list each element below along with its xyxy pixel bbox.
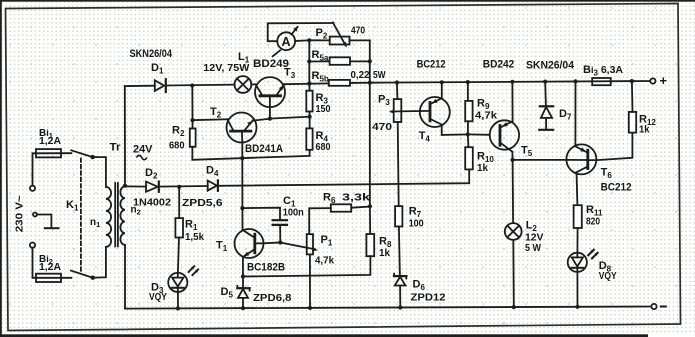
wire L1 to T3	[251, 83, 255, 85]
wire T6 base to R12	[589, 133, 633, 161]
capacitor C1 100n	[242, 208, 287, 243]
LED D8 VQY	[568, 249, 599, 272]
svg-text:470: 470	[372, 121, 392, 133]
LED D3 VQY	[168, 266, 199, 292]
resistor R2	[190, 129, 196, 147]
transformer winding n1	[106, 187, 111, 247]
svg-text:1,2A: 1,2A	[39, 136, 61, 147]
potentiometer P3 470	[389, 99, 429, 122]
terminal mains bottom	[30, 243, 35, 248]
wire P1 bottom to rail	[309, 254, 311, 308]
wire T1 emitter	[242, 257, 244, 277]
svg-text:BC212: BC212	[417, 59, 446, 71]
wire primary top lead	[93, 157, 106, 187]
svg-text:680: 680	[169, 139, 185, 151]
switch K1 link dashed	[80, 159, 82, 273]
fuse Bi1 1,2A	[36, 149, 61, 157]
node R3/R4 junction	[308, 115, 312, 119]
wire L2 to bottom rail	[512, 240, 515, 307]
wire top rail T3 to R5b	[284, 82, 329, 85]
resistor R5b shunt 0,22 5W	[329, 80, 370, 86]
node X top junction	[307, 38, 311, 42]
resistor R9 4,7k	[465, 101, 472, 121]
wire R1 branch	[178, 187, 180, 218]
wire R1 to D3	[178, 238, 179, 274]
ammeter A	[273, 26, 299, 56]
node bottom rail/D3	[176, 306, 180, 310]
wire n2 bottom lead	[124, 245, 126, 309]
svg-text:12V, 75W: 12V, 75W	[203, 62, 249, 74]
wire ammeter right to node X	[295, 39, 309, 42]
transistor T4	[420, 97, 450, 127]
svg-text:VQY: VQY	[149, 292, 167, 303]
resistor R5a	[309, 57, 370, 65]
wire R10 top lead	[467, 134, 470, 147]
fuse Bi2 1,2A	[36, 274, 61, 282]
wire D2 to D4	[160, 185, 208, 188]
wire T4 emitter to rail	[441, 82, 443, 98]
node R6/R8 junction	[368, 204, 372, 208]
svg-text:3,3k: 3,3k	[342, 192, 370, 204]
node C1 top junction	[240, 206, 244, 210]
svg-text:BD241A: BD241A	[245, 143, 283, 155]
transistor T3	[255, 77, 285, 119]
transformer winding n2	[120, 186, 125, 244]
wire D3 to bottom rail	[177, 292, 179, 308]
node bottom rail/D8	[575, 305, 579, 309]
label minus	[660, 306, 667, 308]
svg-text:150: 150	[316, 103, 331, 115]
svg-text:1k: 1k	[477, 162, 488, 174]
node rail/D7 junction	[543, 80, 547, 84]
wire D4 to R10 bottom	[219, 169, 469, 185]
svg-text:5W: 5W	[373, 69, 386, 81]
svg-text:BD242: BD242	[483, 59, 515, 71]
wire T5 emitter to rail	[511, 82, 513, 121]
svg-text:0,22: 0,22	[351, 69, 370, 81]
earth pin symbol	[33, 213, 59, 229]
potentiometer P1 4,7k	[280, 234, 318, 254]
zener diode D5 ZPD6,8	[237, 277, 249, 309]
node switch pole bottom	[91, 276, 95, 280]
lamp L1	[235, 76, 252, 93]
svg-text:SKN26/04: SKN26/04	[130, 48, 173, 60]
page edge top	[0, 0, 695, 2]
wire P2 right column	[369, 40, 371, 82]
wire P3 bottom to R7	[398, 122, 399, 206]
wire T5 collector to L2	[512, 160, 515, 223]
node bottom rail/P1	[308, 306, 312, 310]
resistor R4	[306, 128, 312, 149]
resistor R11 820	[574, 205, 582, 228]
resistor R6 3,3k	[309, 204, 370, 234]
wire T5 collector node	[511, 152, 513, 160]
node rail/R12 junction	[630, 79, 634, 83]
wire T2 base	[193, 118, 228, 121]
fuse Bi3	[592, 78, 611, 85]
wire secondary top lead	[124, 86, 126, 186]
resistor R3	[306, 91, 312, 112]
node n2/D2 junction	[123, 184, 127, 188]
wire T6 collector to R11	[576, 172, 579, 205]
wire T6 emitter to rail	[574, 81, 576, 146]
wire ammeter loop	[268, 23, 334, 41]
svg-text:Bi3 6,3A: Bi3 6,3A	[583, 64, 623, 78]
svg-text:100n: 100n	[283, 207, 304, 219]
node bottom rail/D5	[241, 306, 245, 310]
svg-text:820: 820	[586, 216, 600, 228]
svg-text:470: 470	[351, 26, 365, 37]
svg-text:Tr: Tr	[110, 142, 122, 154]
svg-text:SKN26/04: SKN26/04	[526, 60, 575, 72]
wire node X vertical	[308, 40, 310, 83]
node bottom rail/L2	[512, 305, 516, 309]
transistor T5	[490, 120, 519, 152]
wire R9 top lead	[467, 82, 469, 101]
svg-text:BC182B: BC182B	[247, 262, 285, 274]
transformer core	[115, 183, 118, 246]
page edge left	[0, 0, 2, 337]
wire R12 top lead	[631, 81, 634, 112]
wire R3 bottom lead	[309, 112, 311, 117]
node bottom rail/D6	[398, 305, 402, 309]
wire top rail D1 to L1	[167, 84, 235, 87]
wire R2 bottom to R4 bottom	[192, 147, 309, 160]
wire T5 base	[468, 133, 490, 135]
node switch pole top	[90, 155, 94, 159]
node rail/T4 emitter junction	[440, 80, 444, 84]
resistor R10 1k	[465, 147, 473, 169]
node T3 base junction	[268, 117, 272, 121]
svg-text:1,2A: 1,2A	[39, 262, 61, 273]
zener diode D6 ZPD12	[394, 274, 406, 308]
svg-text:1,5k: 1,5k	[185, 231, 204, 243]
wire T2 emitter to T3 base node	[253, 119, 270, 121]
node rail/nodeX junction	[307, 82, 311, 86]
wire R11 to D8	[576, 228, 578, 253]
svg-text:A: A	[282, 35, 291, 49]
svg-text:1k: 1k	[379, 247, 390, 259]
resistor R1	[175, 218, 183, 237]
lamp L2	[505, 223, 522, 240]
svg-text:100: 100	[409, 218, 424, 230]
wire mains terminal top	[33, 153, 72, 185]
svg-text:5 W: 5 W	[525, 242, 541, 254]
node T2 base junction	[190, 118, 194, 122]
wire T1 base	[263, 242, 280, 245]
wire P3 top lead	[396, 83, 399, 100]
wire R4 top lead	[309, 117, 311, 129]
diode D1	[155, 79, 166, 92]
node R5a right junction	[368, 59, 372, 63]
wire T3 base node to R3/R4	[270, 117, 310, 119]
node C1 bottom junction	[278, 240, 282, 244]
wire primary bottom lead	[93, 247, 106, 278]
transistor T6	[566, 144, 596, 174]
wire R7 to D6	[399, 227, 400, 277]
wire D8 to bottom rail	[576, 272, 578, 307]
wire R2 top lead	[192, 120, 194, 128]
node T1 emitter/D5 junction	[241, 274, 245, 278]
resistor R12 1k	[629, 112, 636, 133]
svg-text:1k: 1k	[639, 124, 650, 136]
wire top rail	[125, 85, 155, 87]
label tilde	[137, 155, 147, 159]
wire R8 bottom to emitter reference	[243, 256, 370, 276]
svg-text:24V: 24V	[133, 144, 153, 156]
node rail/T6 emitter junction	[573, 79, 577, 83]
svg-text:BC212: BC212	[601, 182, 632, 194]
svg-text:VQY: VQY	[599, 271, 617, 282]
node T5 collector junction	[510, 158, 514, 162]
node D2/R1 junction	[177, 185, 181, 189]
node rail/R9 junction	[466, 80, 470, 84]
svg-text:4,7k: 4,7k	[475, 110, 497, 122]
wire R8 top lead	[369, 206, 371, 234]
svg-text:230 V~: 230 V~	[14, 195, 26, 232]
svg-text:ZPD6,8: ZPD6,8	[253, 292, 292, 304]
diode D2 1N4002	[146, 182, 159, 192]
svg-text:680: 680	[316, 141, 331, 153]
wire R2 column from rail	[191, 86, 193, 121]
resistor R8 1k	[366, 234, 374, 256]
wire bottom rail	[125, 307, 651, 309]
diode D7	[539, 82, 553, 130]
wire T2 collector column	[241, 142, 243, 230]
transistor T1	[235, 229, 264, 258]
node X R5a junction	[307, 59, 311, 63]
svg-text:ZPD12: ZPD12	[411, 292, 446, 304]
transistor T2	[227, 113, 257, 143]
wire sense column x370	[369, 83, 371, 207]
switch K1 blade top	[71, 150, 92, 157]
svg-text:+: +	[660, 73, 668, 88]
wire T5 collector to T6 base	[513, 159, 567, 161]
node rail/R5 right column	[368, 81, 372, 85]
terminal mains top	[30, 186, 35, 191]
wire T4 collector to R9/R10 node	[442, 125, 468, 135]
page edge bottom	[0, 334, 648, 337]
zener diode D4 ZPD5,6	[208, 180, 218, 190]
resistor R7 100	[395, 206, 402, 226]
node T2 collector junction	[240, 156, 244, 160]
node R9/R10/T5 base junction	[466, 132, 470, 136]
terminal + output	[650, 78, 655, 83]
wire R9 bottom lead	[467, 121, 469, 134]
potentiometer P2 470	[309, 23, 370, 48]
node rail/T5 emitter junction	[510, 80, 514, 84]
switch K1 blade bottom	[71, 271, 93, 278]
node D1/R2 junction	[190, 83, 194, 87]
wire R3 top lead	[308, 84, 310, 91]
terminal - output	[651, 304, 656, 309]
wire reference line from n2 to D2	[125, 185, 146, 187]
svg-text:4,7k: 4,7k	[315, 255, 334, 267]
node rail/P3 junction	[395, 80, 399, 84]
svg-text:ZPD5,6: ZPD5,6	[182, 197, 223, 209]
wire top rail right section	[370, 81, 651, 83]
wire mains terminal bottom	[33, 248, 72, 278]
